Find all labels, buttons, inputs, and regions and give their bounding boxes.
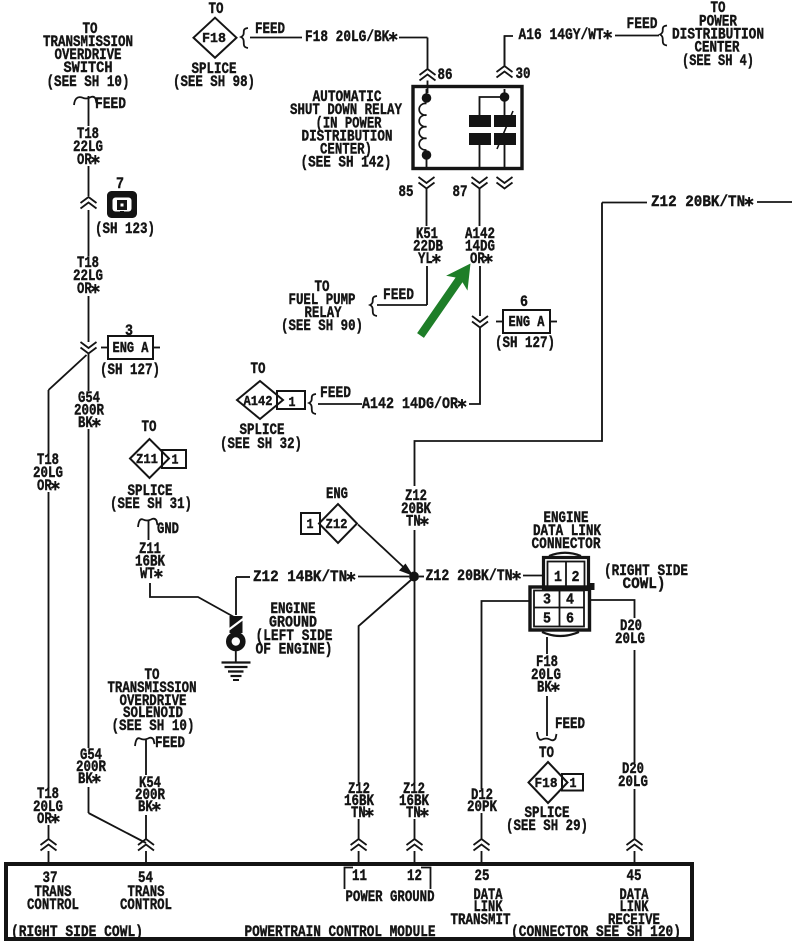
svg-text:OR: OR (37, 477, 52, 495)
label Z11 16BK WT* (135, 540, 166, 583)
green annotation arrow (417, 264, 470, 338)
wire A142 14DG OR* upper (479, 189, 482, 316)
svg-text:TO: TO (539, 744, 554, 762)
label A142 14DG OR* (465, 225, 495, 268)
relay NC pin chevrons (497, 177, 513, 189)
svg-text:GND: GND (157, 520, 179, 538)
svg-text:FEED: FEED (95, 95, 126, 113)
pcm pin 25 DATA LINK TRANSMIT (451, 867, 511, 929)
svg-text:1: 1 (554, 570, 562, 586)
svg-text:OF ENGINE): OF ENGINE) (256, 641, 333, 659)
svg-text:CONTROL: CONTROL (27, 896, 79, 914)
powertrain control module box (6, 864, 692, 939)
relay pin 86 chevrons (420, 66, 453, 84)
svg-text:(SEE SH 4): (SEE SH 4) (682, 52, 754, 70)
svg-text:85: 85 (399, 183, 414, 201)
svg-text:CONNECTOR: CONNECTOR (532, 535, 602, 553)
wire A16 14GY/WT* (505, 36, 660, 67)
feed bracket F18 splice (241, 20, 285, 48)
pcm pin 54 TRANS CONTROL (120, 869, 172, 914)
svg-text:Z12 20BK/TN: Z12 20BK/TN (425, 567, 512, 585)
wire G54 200R BK* from connector 3 (88, 354, 90, 748)
feed bracket (transmission overdrive switch) (74, 95, 126, 113)
ground: bolt and ring terminal (229, 616, 243, 662)
node: TO TRANSMISSION OVERDRIVE SOLENOID label (108, 666, 197, 735)
svg-text:Z12 14BK/TN: Z12 14BK/TN (253, 568, 347, 586)
splice F18 (SEE SH 29) (506, 744, 588, 835)
feed bracket F18 wire end (537, 715, 585, 740)
wire D12 20PK from connector pin 3 (482, 601, 531, 839)
svg-text:20LG: 20LG (618, 773, 648, 791)
relay contact bars (469, 111, 516, 149)
svg-text:7: 7 (116, 175, 124, 193)
label T18 22LG OR* (second) (73, 254, 103, 298)
arrow from ENG Z12 to junction (358, 525, 414, 577)
svg-text:Z12: Z12 (326, 517, 348, 533)
wire Z12 20BK/TN* junction to data link connector (419, 576, 543, 577)
svg-text:F18: F18 (202, 31, 226, 47)
svg-text:(SH 123): (SH 123) (95, 220, 155, 238)
svg-text:87: 87 (453, 183, 468, 201)
svg-text:2: 2 (572, 570, 580, 586)
label K54 200R BK* (135, 774, 166, 816)
splice Z11 (SEE SH 31) (110, 418, 192, 513)
wire A142 down to corner (318, 328, 480, 404)
inline connector 7 chevrons (81, 197, 97, 209)
relay pin 30 chevrons (497, 36, 531, 83)
svg-text:OR: OR (37, 810, 52, 828)
label G54 200R BK* (upper) (74, 389, 105, 432)
label Z12 16BK TN* (pin 12) (399, 780, 430, 822)
label Z12 20BK/TN* (to connector) (425, 567, 520, 585)
svg-text:(RIGHT SIDE COWL): (RIGHT SIDE COWL) (11, 923, 143, 941)
svg-text:1: 1 (307, 517, 314, 533)
feed bracket A142 splice (309, 384, 351, 414)
label POWERTRAIN CONTROL MODULE (245, 923, 436, 941)
data link connector shell (530, 553, 595, 636)
svg-text:(SEE SH 90): (SEE SH 90) (281, 317, 363, 335)
wire T18 20LG OR* vertical to pin 37 (48, 390, 50, 839)
wire into junction from above (414, 530, 416, 572)
svg-text:OR: OR (470, 250, 485, 268)
svg-text:(SEE SH 142): (SEE SH 142) (301, 154, 392, 172)
svg-text:POWER GROUND: POWER GROUND (346, 888, 435, 906)
svg-text:20PK: 20PK (467, 798, 498, 816)
svg-text:CONTROL: CONTROL (120, 896, 172, 914)
svg-text:WT: WT (140, 565, 155, 583)
label Z12 16BK TN* (pin 11) (344, 780, 375, 822)
wire F18 20LG BK* from connector bottom (546, 637, 548, 736)
svg-text:(SEE SH 31): (SEE SH 31) (110, 495, 192, 513)
pcm pin 54 chevrons (138, 839, 154, 862)
svg-text:(CONNECTOR SEE SH 120): (CONNECTOR SEE SH 120) (511, 923, 681, 941)
feed bracket fuel pump relay (370, 286, 414, 316)
relay pin 85 chevrons (399, 177, 435, 201)
svg-text:FEED: FEED (155, 734, 185, 752)
svg-text:F18 20LG/BK: F18 20LG/BK (305, 28, 390, 46)
svg-text:3: 3 (125, 322, 133, 340)
svg-text:BK: BK (78, 414, 93, 432)
label Z12 14BK/TN * (253, 568, 355, 586)
wire T18 22LG OR* upper segment (88, 96, 90, 196)
wire T18 below connector 7 (88, 210, 90, 256)
svg-text:BK: BK (537, 679, 552, 697)
svg-text:86: 86 (438, 66, 453, 84)
in-line connector ENG A cavity 6 chevrons (472, 316, 488, 328)
svg-text:TN: TN (406, 804, 421, 822)
svg-text:POWERTRAIN CONTROL MODULE: POWERTRAIN CONTROL MODULE (245, 923, 436, 941)
data link connector cells 1-2 (548, 562, 585, 588)
svg-text:4: 4 (566, 593, 574, 609)
in-line connector ENG A cavity 3 chevrons (81, 342, 97, 354)
relay contact common node (480, 89, 510, 115)
label Z12 20BK TN* (junction) (401, 487, 432, 531)
node: TO TRANSMISSION OVERDRIVE SWITCH label (43, 20, 133, 91)
label F18 20LG/BK* (305, 28, 397, 46)
wire Z11 to engine ground (150, 583, 234, 617)
ground symbol hatches (222, 663, 251, 681)
wire Z12 20BK/TN* from right edge (415, 202, 793, 486)
svg-text:F18: F18 (535, 776, 558, 792)
wire D20 20LG from connector pin 4 (590, 600, 635, 839)
svg-text:Z12 20BK/TN: Z12 20BK/TN (651, 193, 745, 211)
svg-text:TRANSMIT: TRANSMIT (451, 911, 511, 929)
connector ENG A (3) (SH 127) (100, 322, 160, 379)
pcm pin 11 chevrons (351, 839, 367, 862)
svg-text:ENG A: ENG A (113, 341, 149, 357)
wire T18 into ENG A connector 3 (88, 296, 90, 342)
svg-text:30: 30 (516, 65, 531, 83)
svg-text:(SEE SH 10): (SEE SH 10) (112, 717, 195, 735)
label T18 20LG OR* (lower) (33, 785, 63, 828)
svg-text:6: 6 (566, 612, 574, 628)
splice marker ENG Z12 cavity 1 (301, 485, 357, 543)
node: TO FUEL PUMP RELAY label (281, 278, 363, 335)
svg-text:1: 1 (172, 453, 179, 469)
wire K51 22DB YL* (377, 189, 427, 305)
svg-text:FEED: FEED (627, 15, 658, 33)
relay contact lower wires (480, 145, 505, 167)
label T18 20LG OR* (mid) (33, 451, 63, 495)
svg-text:A142: A142 (244, 395, 273, 410)
svg-text:45: 45 (627, 867, 642, 885)
engine ground label (256, 600, 333, 659)
wire F18 20LG/BK* horizontal (250, 38, 428, 70)
connector ENG A (6) (SH 127) (495, 293, 557, 352)
feed bracket to power distribution center (627, 15, 668, 46)
wire branch T18 20LG OR* diagonal (49, 355, 87, 390)
pcm pins 11 12 POWER GROUND (345, 867, 435, 906)
svg-text:(SH 127): (SH 127) (495, 334, 555, 352)
connector 7 (SH 123) grommet symbol (95, 175, 155, 238)
pcm pin 12 chevrons (407, 839, 423, 862)
data link connector cells 3-6 (534, 591, 584, 628)
relay K1 automatic shut down relay box (413, 87, 522, 169)
svg-text:TN: TN (406, 513, 421, 531)
engine data link connector label (532, 509, 602, 553)
label G54 200R BK* (lower) (76, 746, 107, 788)
svg-text:(SH 127): (SH 127) (100, 361, 160, 379)
label T18 22LG OR* (upper) (73, 125, 103, 169)
svg-text:FEED: FEED (555, 715, 585, 733)
svg-text:(SEE SH 32): (SEE SH 32) (220, 435, 302, 453)
wire Z12 16BK TN* diagonal to pin 11 (359, 580, 411, 839)
pcm pin 45 DATA LINK RECEIVE (608, 867, 660, 929)
svg-text:Z11: Z11 (136, 452, 158, 468)
svg-text:20LG: 20LG (615, 630, 645, 648)
svg-text:OR: OR (77, 151, 92, 169)
wire pin86 stub (427, 81, 429, 94)
svg-text:FEED: FEED (320, 384, 351, 402)
svg-text:TN: TN (351, 804, 366, 822)
svg-text:FEED: FEED (383, 286, 414, 304)
svg-text:TO: TO (251, 360, 266, 378)
svg-text:A142 14DG/OR: A142 14DG/OR (362, 395, 459, 413)
wire Z12 14BK/TN* to engine ground (236, 577, 409, 616)
svg-text:TO: TO (142, 418, 157, 436)
junction node Z12 (409, 572, 419, 582)
pcm pin 37 chevrons (41, 839, 57, 862)
label Z12 20BK/TN* (top right) (651, 193, 753, 211)
svg-text:6: 6 (520, 293, 528, 311)
svg-text:ENG A: ENG A (509, 315, 545, 331)
wire G54 diagonal joining K54 (89, 787, 147, 843)
splice F18 (SEE SH 98) (173, 0, 255, 91)
label D20 20LG (lower) (618, 760, 648, 791)
svg-text:A16 14GY/WT: A16 14GY/WT (519, 26, 604, 44)
relay pin 87 chevrons (453, 177, 488, 201)
label (RIGHT SIDE COWL) (604, 562, 688, 593)
svg-text:5: 5 (543, 612, 551, 628)
label A142 14DG/OR* (362, 395, 466, 413)
label F18 20LG BK* (531, 653, 561, 697)
splice A142 (SEE SH 32) (220, 360, 305, 453)
wire Z12 16BK TN* straight to pin 12 (414, 581, 416, 839)
pcm pin 25 chevrons (474, 839, 490, 862)
svg-text:12: 12 (407, 867, 422, 885)
svg-text:3: 3 (543, 593, 551, 609)
svg-text:ENG: ENG (326, 485, 348, 503)
svg-text:BK: BK (138, 798, 153, 816)
svg-text:COWL): COWL) (623, 575, 666, 593)
svg-text:1: 1 (570, 777, 577, 792)
pcm pin 37 TRANS CONTROL (27, 869, 79, 914)
svg-text:(SEE SH 98): (SEE SH 98) (173, 73, 255, 91)
label D12 20PK (467, 786, 498, 816)
svg-text:(SEE SH 29): (SEE SH 29) (506, 817, 588, 835)
svg-text:(SEE SH 10): (SEE SH 10) (47, 73, 130, 91)
relay coil (419, 89, 431, 167)
svg-text:YL: YL (418, 250, 433, 268)
svg-text:BK: BK (78, 770, 93, 788)
feed bracket solenoid (135, 734, 185, 752)
svg-text:1: 1 (289, 395, 296, 411)
label (RIGHT SIDE COWL) pcm (11, 923, 143, 941)
label D20 20LG (upper) (615, 617, 645, 648)
node: TO POWER DISTRIBUTION CENTER label (672, 0, 764, 70)
gnd bracket below Z11 splice (138, 519, 179, 540)
svg-text:FEED: FEED (255, 20, 285, 38)
label K51 22DB YL* (413, 225, 443, 268)
label A16 14GY/WT* (519, 26, 612, 44)
pcm pin 45 chevrons (627, 839, 643, 862)
wire K54 200R BK* (145, 740, 147, 839)
svg-text:OR: OR (77, 280, 92, 298)
svg-text:25: 25 (475, 867, 490, 885)
relay ASD label text (290, 88, 403, 172)
svg-text:11: 11 (352, 867, 367, 885)
label (CONNECTOR SEE SH 120) (511, 923, 681, 941)
svg-text:TO: TO (209, 0, 224, 18)
